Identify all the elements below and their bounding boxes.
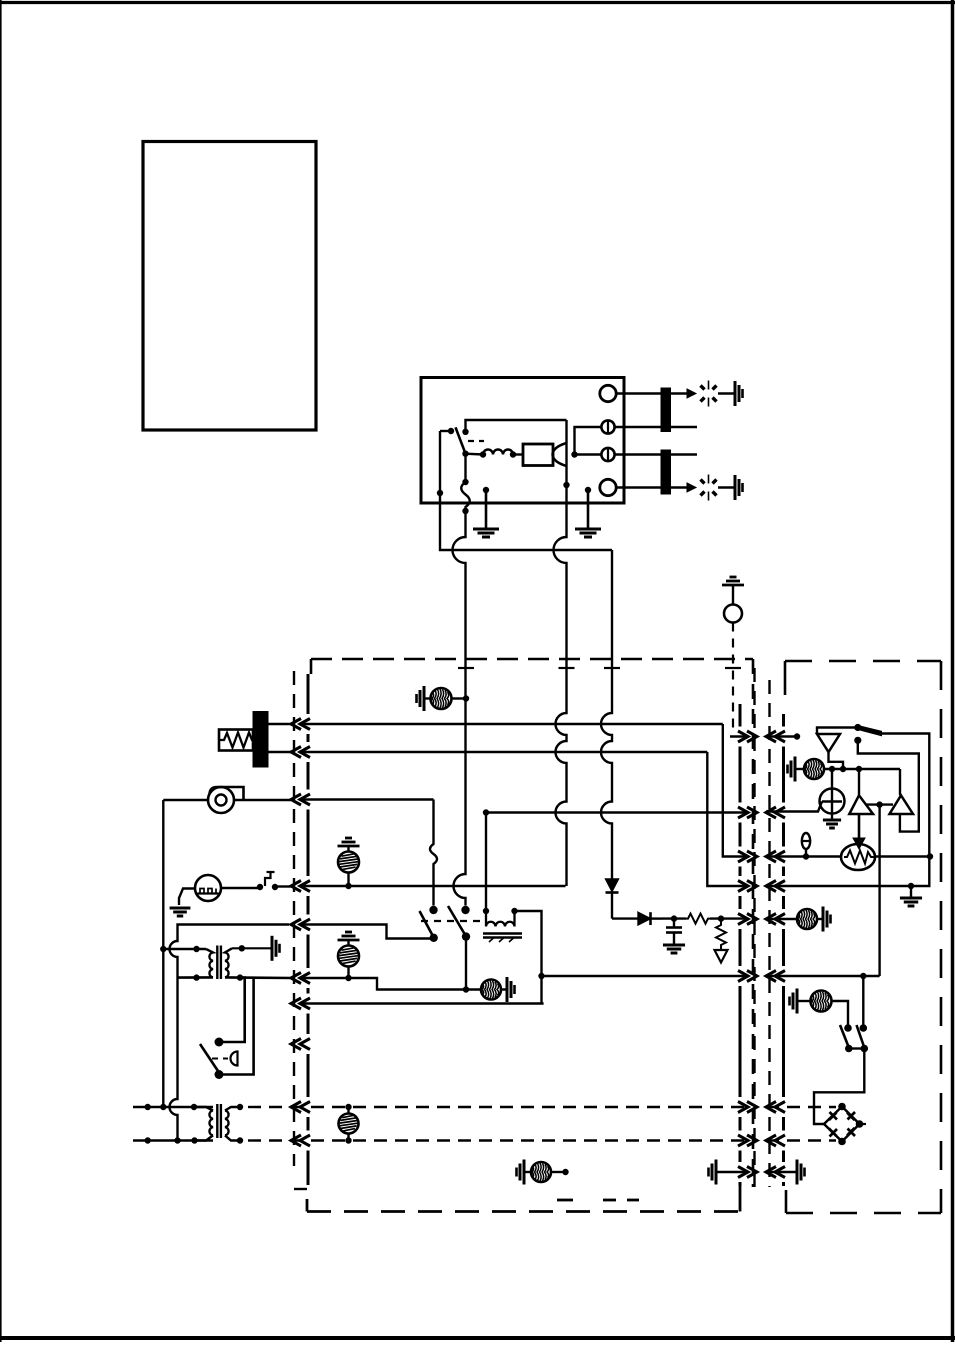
thermal switch TS1 <box>265 872 271 886</box>
lamp H8 <box>811 991 832 1012</box>
resistor R1 <box>686 914 710 924</box>
terminal circle P4 <box>600 479 616 495</box>
sensor stub to connector <box>730 735 747 737</box>
wire motor left to ground <box>179 889 195 906</box>
node mains1 T2 sec <box>237 1104 243 1110</box>
transformer T2 sec bottom lead <box>225 1135 240 1140</box>
wire row7 right of X1 <box>301 1002 544 1004</box>
wire crescent-branch down with hop <box>554 503 567 659</box>
transformer T2 primary coil <box>209 1111 213 1136</box>
shield crossing tick B <box>559 667 575 669</box>
node igniter top junction <box>483 809 489 815</box>
wire S1 fixed to left down <box>439 431 441 503</box>
heater resistor box <box>219 730 253 751</box>
transformer T2 primary bottom lead <box>195 1135 214 1140</box>
node igniter branch <box>538 973 544 979</box>
transformer T1 secondary coil <box>225 948 232 977</box>
wire feedback top <box>466 420 567 432</box>
node SW5 bottom a <box>845 1045 853 1053</box>
wire motor right <box>221 887 260 889</box>
wire mains row1 dashed <box>248 1106 750 1108</box>
terminal circle P1 <box>600 385 616 401</box>
lamp H3 stem top <box>347 940 349 946</box>
wire crescent-branch long vertical <box>556 659 567 886</box>
wire gate junction down <box>878 805 880 976</box>
ground above lamp H2 <box>338 845 360 848</box>
shield crossing tick A <box>458 667 474 669</box>
diode D1 <box>606 879 619 892</box>
wire squiggle-branch long vertical <box>454 659 466 906</box>
wire row2 right of X1 <box>301 751 707 753</box>
ground G-Q1 <box>831 814 833 820</box>
wire from S1-fixed down and right <box>440 503 612 550</box>
wire P2 lead out <box>615 426 697 428</box>
wire row1 drop to pin3 <box>723 724 748 857</box>
node SW-B pivot <box>462 932 470 940</box>
ground GND2 under unit <box>587 490 590 529</box>
page border frame <box>0 1 955 4</box>
wire D2 to R1 <box>662 917 686 919</box>
wire row1 right of X1 <box>301 723 723 725</box>
wire flame row <box>824 768 900 770</box>
wire H10 right <box>551 1171 566 1173</box>
transformer T2 core <box>216 1104 218 1138</box>
wire switch to right <box>882 734 930 857</box>
node mains2 T2 sec <box>237 1137 243 1143</box>
wire P4 lead out <box>616 486 687 488</box>
wire SW-B pivot down <box>465 937 467 990</box>
node S1 fixed contact <box>448 428 454 434</box>
wire mains row1 dashed right <box>766 1106 836 1108</box>
wire heater top <box>268 723 291 725</box>
wire H10 left <box>524 1171 531 1173</box>
wire row5 left of X1 <box>178 925 290 939</box>
shield crossing tick D <box>725 667 741 669</box>
transistor Q1 <box>820 789 845 814</box>
node SW5 top a <box>844 1024 852 1032</box>
lamp H7 stem bottom <box>347 1134 349 1141</box>
enclosure right dashed border <box>752 659 755 1187</box>
arrow to spark gap 2 <box>687 483 696 492</box>
node S1 pivot <box>462 451 468 457</box>
wire diode row start <box>612 917 638 919</box>
resistor squiggle in S1 branch <box>464 454 466 482</box>
lamp H6 <box>804 759 824 779</box>
wire P2 lead <box>575 427 602 455</box>
node S1 top <box>462 429 468 435</box>
legend box (empty rectangle) <box>143 142 316 431</box>
wire H6 left <box>795 768 804 770</box>
lamp H5 <box>797 909 817 929</box>
node relay switch pivot <box>854 724 861 731</box>
wire igniter row <box>486 811 748 813</box>
wire row4 right of X1 <box>301 885 566 887</box>
node T1 sec bottom <box>237 974 243 980</box>
amplifier box right dashed border <box>940 661 943 1213</box>
node H7 bottom <box>345 1137 351 1143</box>
node jog junction <box>840 766 846 772</box>
amplifier box bottom dashed edge <box>786 1212 941 1215</box>
node between gates <box>876 801 882 807</box>
wire blower return vertical <box>162 800 164 1107</box>
transformer T2 secondary coil <box>225 1111 229 1136</box>
connector X2 right pin bar <box>782 714 785 727</box>
capacitor C1 <box>673 919 675 927</box>
transformer T1 primary coil <box>206 949 213 977</box>
bridge rectifier BR1 <box>824 1107 860 1142</box>
node H3 on row6 <box>345 975 351 981</box>
wire right-corner long vertical <box>601 659 612 879</box>
enclosure top dashed edge <box>311 658 753 661</box>
lamp H2 stem top <box>347 846 349 852</box>
node SW5 bottom b <box>861 1045 869 1053</box>
inverted triangle buzzer <box>817 734 840 752</box>
node H1 junction <box>463 695 469 701</box>
wire tri1 apex feed <box>858 769 860 795</box>
ground right of X2 pin9 <box>796 1160 799 1185</box>
component box K1 <box>523 444 553 466</box>
switch SW5 blade b <box>857 1025 865 1048</box>
connector X1 chevrons <box>291 719 301 730</box>
connector X1 dashed line <box>293 671 295 1166</box>
wire X2 pin6 right <box>766 975 880 977</box>
shield crossing tick C <box>604 667 620 669</box>
connector X2 dashed line left <box>753 668 755 1187</box>
wire SW5 to bridge <box>814 1049 864 1125</box>
node H10 right <box>562 1169 568 1175</box>
chassis ground G-E1 <box>734 381 737 406</box>
ground left of lamp H6 <box>794 757 797 782</box>
wire P1 lead out <box>616 392 687 394</box>
relay contact S1 fixed lead <box>440 430 451 432</box>
gang dashed link of S1 <box>468 440 484 442</box>
spark gap E1 <box>701 386 705 390</box>
connector X1 pin bar <box>307 674 310 714</box>
varistor arrow <box>715 950 728 963</box>
node H7 top <box>345 1104 351 1110</box>
node ground tap row4 <box>908 883 914 889</box>
chassis ground G-E2 <box>734 475 737 500</box>
node P2/P3 junction <box>571 451 577 457</box>
wire X2 pin1 stub <box>766 735 797 737</box>
wire between gates <box>866 803 893 805</box>
ground right of T1 <box>271 936 274 961</box>
microswitch SW4 dashed link <box>212 1058 228 1060</box>
suppressor bar FL2 <box>661 450 671 494</box>
suppressor bar FL1 <box>661 388 671 432</box>
ground GND1 under unit <box>485 490 488 529</box>
sensor circle <box>724 605 742 623</box>
wire T1 primary bottom lead <box>178 976 214 979</box>
wire blower branch squiggle <box>430 800 437 906</box>
transformer T2 sec top lead <box>225 1107 240 1111</box>
wire row3 right of X1 <box>301 798 434 800</box>
relay switch blade arrow <box>858 726 882 736</box>
ground left of X2 pin9 <box>715 1160 718 1185</box>
wire buzzer apex jog <box>829 752 844 769</box>
wire P3 lead <box>575 453 602 455</box>
node TS1 left <box>257 884 263 890</box>
node capacitor junction <box>671 915 677 921</box>
wire H5 right <box>817 918 823 920</box>
triangle gate A2 <box>890 795 914 814</box>
wire row5 vertical with hops <box>170 938 178 1141</box>
flame sensor FR1 <box>841 844 875 870</box>
lamp H2 <box>338 852 359 873</box>
ground G-row4 <box>910 886 912 897</box>
wire X2 pin5 right <box>766 918 797 920</box>
lamp H4 <box>481 980 501 1000</box>
node on S1 down wire <box>437 490 443 496</box>
spark gap E2 <box>701 480 705 484</box>
node tri1 feed <box>856 766 862 772</box>
wire mains row1 stub <box>133 1106 213 1109</box>
relay contact S1 blade <box>456 427 466 453</box>
node SW5 feed <box>860 973 866 979</box>
lamp H7 stem top <box>347 1107 349 1114</box>
wire mains row2 dashed right <box>766 1139 836 1141</box>
wire H1 left <box>424 697 431 699</box>
wire mains row2 dashed <box>248 1139 750 1141</box>
node mains1 b <box>160 1104 166 1110</box>
node SW-A top <box>429 906 437 914</box>
wire S1 pivot to coil <box>466 453 484 456</box>
wire spark2 to ground <box>718 486 735 488</box>
terminal circle P3 <box>601 448 614 461</box>
wire row2 drop to pin4 <box>707 752 748 886</box>
switch SW-A blade <box>420 911 434 938</box>
resistor R2 <box>716 919 726 950</box>
node T1 pri top bend <box>193 946 199 952</box>
node pin1 stub end <box>794 733 800 739</box>
terminal circle P2 <box>601 420 614 433</box>
node TS1 right <box>272 884 278 890</box>
node mains2 vert <box>174 1137 180 1143</box>
node mains1 a <box>145 1104 151 1110</box>
wire right corner down <box>611 550 613 659</box>
wire R1 to node <box>710 917 748 919</box>
node SW-B top <box>461 906 469 914</box>
igniter GP1 <box>483 908 489 914</box>
node H2 on row4 <box>345 883 351 889</box>
wire H8 right <box>832 1001 849 1028</box>
wire row3 end down <box>766 857 929 887</box>
wire X2 pin9 right <box>766 1171 797 1173</box>
thermal fuse F1 <box>802 833 810 849</box>
connector X2 left pin bar <box>739 704 742 727</box>
lamp H10 <box>531 1162 551 1182</box>
wire Q1 base <box>766 802 822 812</box>
wire SW5 feed down <box>862 976 864 1028</box>
node SW-B on row6 <box>463 986 469 992</box>
node T1 sec top <box>239 945 245 951</box>
node on vertical <box>563 482 569 488</box>
lamp H3 stem bottom <box>347 967 349 979</box>
wire squiggle-branch down with hop <box>453 511 466 659</box>
sensor dashed lead <box>732 623 734 733</box>
wire T1 sec top to ground <box>232 947 272 949</box>
arrow to spark gap 1 <box>687 389 696 398</box>
wire tri2 apex feed <box>899 769 901 795</box>
blower B1 <box>208 787 234 813</box>
switch SW-B blade <box>448 906 466 936</box>
node ground stem 1 <box>483 487 489 493</box>
wire H1 right <box>452 697 467 699</box>
enclosure bottom notch dashes <box>557 1199 573 1202</box>
wire T1 secondary bottom lead <box>225 976 291 979</box>
node T1 pri bottom a <box>193 974 199 980</box>
ground above lamp H3 <box>338 939 360 942</box>
sensor ground <box>722 584 744 587</box>
node blower return tap <box>160 946 166 952</box>
wire vertical through crescent <box>565 420 567 503</box>
node bell top contact <box>215 1038 224 1047</box>
amplifier box top dashed edge <box>785 660 941 663</box>
connector X2 chevrons <box>738 731 748 742</box>
ground G-M1 <box>170 907 191 910</box>
connector X2 dashed line right <box>768 680 770 1187</box>
ground right of H4 <box>506 977 509 1002</box>
lamp H3 <box>338 946 359 967</box>
wire igniter right lead <box>515 911 542 1004</box>
node mains2 a <box>145 1137 151 1143</box>
wire row6 right of X1 <box>301 978 481 990</box>
triangle gate A1 <box>849 795 873 814</box>
wire buzzer top feed <box>817 728 858 735</box>
node below pivot <box>854 737 861 744</box>
node SW-A pivot <box>430 934 438 942</box>
sensor stem <box>732 585 734 604</box>
heater element bar <box>253 712 268 768</box>
node mains1 T2 terminal <box>191 1104 197 1110</box>
wire H8 left <box>797 1000 811 1002</box>
lamp H2 stem bottom <box>347 873 349 887</box>
wire P3 lead out <box>615 453 697 455</box>
node bell bottom contact <box>215 1070 224 1079</box>
wire bell branch A <box>219 978 245 1042</box>
node mains2 T2 terminal <box>191 1137 197 1143</box>
wire igniter left lead <box>485 813 487 912</box>
switch gang dashed link <box>421 920 487 922</box>
diode D2 <box>638 912 651 925</box>
wire T1 primary top lead <box>163 948 206 950</box>
wire heater bottom <box>268 751 291 753</box>
wire flame sensor arrow <box>858 814 861 842</box>
switch SW5 blade a <box>840 1025 849 1048</box>
wire to X2 pin9 <box>716 1171 748 1173</box>
ground right of H5 <box>822 907 825 932</box>
wire mains row2 stub <box>133 1139 213 1142</box>
ground G-C1 <box>663 944 685 947</box>
ground left of lamp H1 <box>423 686 426 711</box>
wire bell branch B <box>219 978 254 1075</box>
transformer T2 primary top lead <box>194 1107 213 1111</box>
wire row5 right of X1 <box>301 925 434 939</box>
wire pivot branch <box>858 740 919 831</box>
inductor L1 (relay coil) <box>480 451 486 457</box>
ground left of lamp H8 <box>796 989 799 1014</box>
node transistor feed <box>829 766 835 772</box>
node SW5 top b <box>860 1024 868 1032</box>
microswitch SW4 blade <box>200 1044 218 1071</box>
node R2 top <box>718 915 724 921</box>
wire row to X2 pin6 <box>542 975 749 977</box>
motor M1 <box>195 875 221 901</box>
control unit U1 outline <box>421 378 624 504</box>
node ground stem 2 <box>585 487 591 493</box>
transformer T1 core <box>216 946 218 980</box>
node F1 on row <box>803 853 809 859</box>
wire TS1 to connector <box>275 885 291 887</box>
wire X2 pin3 right row <box>766 855 841 857</box>
lamp H1 <box>431 688 452 709</box>
wire blower right <box>234 799 291 801</box>
microswitch SW4 actuator <box>231 1052 238 1066</box>
lamp H7 <box>339 1114 359 1134</box>
wire H4 right <box>501 988 507 990</box>
wire SW5 bottoms link <box>849 1047 865 1049</box>
wire spark1 to ground <box>718 392 735 394</box>
enclosure bottom dashed edge <box>307 1210 740 1213</box>
wire blower left <box>163 799 208 801</box>
ground left of H10 <box>523 1160 526 1185</box>
crescent contact <box>553 443 567 466</box>
node row3 right end <box>927 853 933 859</box>
